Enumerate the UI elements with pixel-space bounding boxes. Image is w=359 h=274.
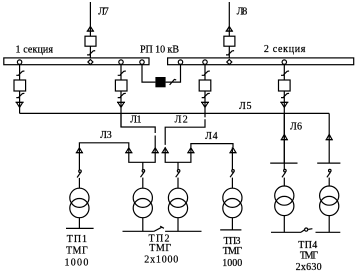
node circle feeder B bbox=[119, 60, 123, 64]
crossbar ТП4 right bbox=[317, 162, 340, 164]
transformer ТП4 right bbox=[320, 186, 339, 205]
cable arrow feeder C down bbox=[201, 101, 209, 103]
switch ТП4 right bbox=[329, 169, 332, 172]
svg-text:2 секция: 2 секция bbox=[264, 44, 306, 55]
node circle feeder C bbox=[203, 60, 207, 64]
wire line Л3 bbox=[79, 143, 128, 148]
LV bar ТП2 right bbox=[165, 230, 201, 232]
wire ТП2 left bottom bbox=[142, 218, 144, 232]
svg-text:Л2: Л2 bbox=[175, 114, 188, 125]
disconnector slash feeder C upper bbox=[202, 71, 210, 75]
svg-text:Л4: Л4 bbox=[205, 131, 218, 142]
wire Л1 arrow to junction bbox=[143, 147, 155, 162]
svg-text:ТМГ: ТМГ bbox=[300, 251, 319, 262]
transformer ТП2 left bbox=[133, 188, 152, 207]
svg-text:Л5: Л5 bbox=[239, 101, 252, 112]
wire bus2 feeder C vertical lower (crossing gap) bbox=[165, 119, 205, 145]
wire trunk line Л5 horizontal bbox=[20, 112, 330, 114]
breaker square Л8 bbox=[224, 36, 235, 46]
wire Л6 drop at ТП4 left bbox=[283, 113, 285, 163]
busbar section 2 bbox=[168, 58, 354, 65]
switch ТП3 bbox=[232, 170, 235, 173]
wire Л2 arrow to junction bbox=[165, 147, 178, 162]
wire Л1 drop to ТП2 left bbox=[121, 113, 155, 133]
wire feeder Л7 bbox=[89, 2, 91, 58]
breaker square feeder B bbox=[115, 80, 127, 91]
wire bus tie right link bbox=[166, 65, 181, 82]
LV open switch ТП2 bbox=[154, 226, 164, 231]
cable arrow Л7 bbox=[88, 27, 94, 32]
disconnector slash feeder A upper bbox=[16, 71, 24, 75]
transformer ТП1 bbox=[70, 188, 89, 207]
wire ТП2 left column bbox=[142, 162, 144, 169]
cable arrow Л4 right at ТП3 bbox=[230, 148, 236, 153]
switch ТП4 left bbox=[284, 169, 287, 172]
LV bar ТП1 bbox=[66, 227, 94, 229]
wire bus1 feeder A vertical bbox=[19, 65, 21, 114]
svg-text:ТМГ: ТМГ bbox=[66, 245, 88, 256]
cable arrow Л4 left at ТП2 bbox=[188, 148, 194, 153]
svg-text:Л1: Л1 bbox=[130, 114, 141, 125]
svg-text:1000: 1000 bbox=[222, 258, 242, 269]
breaker square feeder A bbox=[14, 80, 26, 91]
switch ТП2 right bbox=[177, 170, 180, 173]
wire bus1 feeder B vertical bbox=[120, 65, 122, 127]
breaker square feeder D bbox=[279, 80, 291, 91]
wire bus2 feeder D vertical bbox=[283, 65, 285, 163]
cable arrow Л5 at ТП4 right bbox=[326, 134, 332, 139]
cable arrow Л8 bbox=[226, 27, 232, 32]
transformer ТП2 right bbox=[168, 188, 187, 207]
svg-text:2х630: 2х630 bbox=[296, 262, 322, 273]
cable arrow feeder B down bbox=[117, 101, 125, 103]
svg-text:ТП4: ТП4 bbox=[298, 240, 317, 251]
disconnector slash feeder D lower bbox=[281, 93, 289, 97]
disconnector slash feeder D upper bbox=[281, 71, 289, 75]
diamond node Л7 on bus 1 bbox=[88, 60, 93, 65]
wire ТП2 right column bbox=[177, 162, 179, 169]
cable arrow Л3 right at ТП2 bbox=[126, 148, 132, 153]
wire line Л4 bbox=[191, 144, 233, 148]
breaker square Л7 bbox=[85, 36, 96, 46]
transformer ТП4 left bbox=[275, 186, 294, 205]
disconnector slash bus tie bbox=[170, 79, 177, 85]
wire ТП4 right bottom bbox=[328, 216, 330, 233]
cable arrow feeder D down bbox=[280, 101, 288, 103]
wire ТП1 to transformer bbox=[78, 178, 80, 189]
LV bar ТП4 left bbox=[271, 231, 301, 233]
svg-text:2х1000: 2х1000 bbox=[144, 255, 178, 266]
wire ТП2 right bottom bbox=[177, 218, 179, 232]
svg-text:ТМГ: ТМГ bbox=[223, 246, 243, 257]
disconnector slash feeder A lower bbox=[16, 93, 24, 97]
svg-text:Л7: Л7 bbox=[98, 6, 109, 17]
svg-text:ТП1: ТП1 bbox=[67, 234, 87, 245]
node circle bus tie left bbox=[140, 60, 144, 64]
diamond node Л8 on bus 2 bbox=[227, 60, 232, 65]
disconnector slash Л8 bbox=[226, 51, 234, 55]
LV bar ТП2 left bbox=[123, 230, 154, 232]
node circle feeder A bbox=[17, 60, 21, 64]
disconnector slash feeder B upper bbox=[118, 71, 126, 75]
wire ТП1 entry bbox=[78, 147, 80, 170]
svg-text:ТМГ: ТМГ bbox=[149, 243, 171, 254]
crossbar ТП4 left bbox=[270, 162, 297, 164]
transformer ТП3 bbox=[223, 188, 242, 207]
wire ТП3 entry bbox=[231, 147, 233, 169]
svg-text:1000: 1000 bbox=[64, 258, 88, 269]
LV open switch ТП4 bbox=[301, 230, 305, 233]
cable arrow Л1 at ТП2 bbox=[152, 148, 158, 153]
wire ТП4 left bottom bbox=[283, 216, 285, 233]
node circle bus tie right bbox=[178, 60, 182, 64]
cable arrow Л2 at ТП2 bbox=[162, 148, 168, 153]
cable arrow Л3 at ТП1 bbox=[77, 148, 83, 153]
LV bar ТП4 right bbox=[316, 231, 341, 233]
busbar section 1 bbox=[4, 58, 149, 65]
svg-text:1 секция: 1 секция bbox=[16, 44, 54, 55]
svg-text:РП 10 кВ: РП 10 кВ bbox=[140, 44, 179, 55]
disconnector slash feeder C lower bbox=[202, 93, 210, 97]
wire Л3 arrow to ТП2 junction bbox=[129, 147, 143, 162]
disconnector slash feeder B lower bbox=[118, 93, 126, 97]
svg-text:Л6: Л6 bbox=[290, 121, 302, 132]
node circle feeder D bbox=[282, 60, 286, 64]
breaker square feeder C bbox=[199, 80, 211, 91]
wire bus tie left drop bbox=[142, 65, 155, 82]
wire Л5 drop at ТП4 right bbox=[328, 113, 330, 163]
cable arrow feeder A down bbox=[16, 101, 24, 103]
switch ТП1 bbox=[79, 170, 82, 173]
disconnector slash Л7 bbox=[87, 51, 95, 55]
svg-text:Л8: Л8 bbox=[237, 6, 248, 17]
wire bus2 feeder C vertical upper bbox=[204, 65, 206, 117]
cable arrow Л6 at ТП4 left bbox=[281, 134, 287, 139]
wire Л4 arrow to ТП2 junction bbox=[178, 147, 191, 162]
wire feeder Л8 bbox=[228, 2, 230, 58]
wire ТП1 bottom bbox=[78, 218, 80, 229]
svg-text:Л3: Л3 bbox=[100, 130, 112, 141]
switch ТП2 left bbox=[142, 170, 145, 173]
LV bar ТП3 bbox=[220, 229, 241, 231]
bus tie breaker (closed, filled) bbox=[155, 77, 165, 87]
wire ТП3 bottom bbox=[231, 218, 233, 230]
